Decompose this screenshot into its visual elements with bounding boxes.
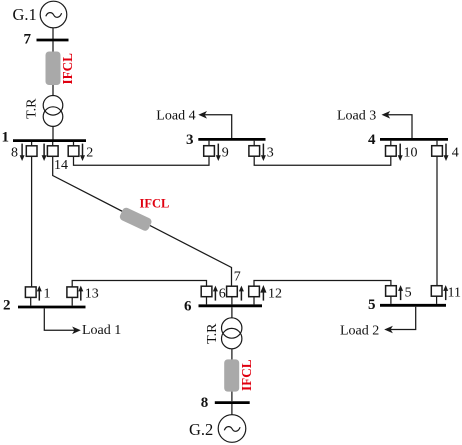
- bus 4: [380, 138, 448, 141]
- breaker 4 (bus 4): [432, 146, 443, 157]
- bus 8: [215, 401, 250, 404]
- svg-text:IFCL: IFCL: [140, 197, 170, 211]
- wire transformer to IFCL: [231, 349, 233, 360]
- flow arrow at breaker 8: [20, 144, 25, 161]
- stub bus5-breaker11: [436, 296, 438, 304]
- breaker 9 (bus 3): [204, 146, 215, 157]
- svg-text:7: 7: [24, 32, 32, 48]
- svg-text:1: 1: [2, 130, 10, 146]
- svg-text:2: 2: [86, 146, 93, 161]
- flow arrow at breaker 4: [444, 144, 449, 161]
- flow arrow at breaker 5: [398, 285, 403, 300]
- flow arrow at breaker 10: [398, 144, 403, 161]
- svg-text:T.R: T.R: [205, 323, 220, 344]
- svg-text:6: 6: [184, 298, 192, 314]
- load arrow Load 4: [198, 111, 231, 138]
- flow arrow at breaker 11: [443, 285, 448, 300]
- svg-text:G.1: G.1: [13, 5, 37, 24]
- svg-text:IFCL: IFCL: [60, 53, 75, 85]
- wire bus 8 to G.2: [231, 404, 233, 415]
- breaker 8 (bus 1): [26, 146, 37, 157]
- wire line 1-2 (breaker 8 to breaker 1): [31, 156, 33, 287]
- IFCL (fault current limiter, G.2 branch): [224, 359, 239, 391]
- wire line 1-6 upper segment (breaker 14 down): [53, 156, 232, 286]
- breaker 3 (bus 3): [249, 146, 260, 157]
- generator G.2: [218, 415, 246, 443]
- flow arrow at breaker 13: [78, 286, 83, 301]
- svg-text:T.R: T.R: [25, 98, 40, 119]
- svg-text:1: 1: [44, 287, 51, 302]
- flow arrow at breaker 14: [42, 144, 47, 161]
- breaker 10 (bus 4): [386, 146, 397, 157]
- breaker 2 (bus 1): [68, 146, 79, 157]
- stub bus2-breaker1: [30, 297, 32, 305]
- flow arrow at breaker 3: [261, 144, 266, 161]
- wire IFCL to transformer: [52, 85, 54, 96]
- svg-text:2: 2: [3, 298, 11, 314]
- svg-text:IFCL: IFCL: [239, 359, 254, 391]
- flow arrow at breaker 7: [239, 286, 244, 301]
- wire bus 6 to transformer: [231, 307, 233, 318]
- stub bus3-breaker3: [253, 141, 255, 146]
- wire line 2-6 (breaker 13 to breaker 6): [72, 281, 206, 287]
- svg-text:6: 6: [219, 287, 226, 302]
- svg-text:Load 2: Load 2: [340, 323, 379, 338]
- wire transformer to bus 1: [52, 126, 54, 139]
- svg-text:3: 3: [186, 132, 194, 148]
- stub bus4-breaker4: [436, 141, 438, 146]
- wire IFCL to bus 8: [231, 392, 233, 402]
- svg-text:5: 5: [405, 286, 412, 301]
- svg-text:13: 13: [85, 287, 99, 302]
- svg-text:8: 8: [11, 146, 18, 161]
- stub bus1-breaker8: [31, 142, 33, 146]
- bus 5: [380, 304, 446, 307]
- wire bus 7 to IFCL: [52, 41, 54, 52]
- transformer T.R (bottom): [222, 318, 242, 349]
- load arrow Load 2: [384, 307, 416, 334]
- breaker 5 (bus 5): [386, 286, 397, 297]
- svg-text:Load 4: Load 4: [156, 109, 195, 124]
- svg-text:10: 10: [404, 146, 418, 161]
- stub bus3-breaker9: [208, 141, 210, 146]
- load arrow Load 3: [382, 111, 413, 138]
- breaker 6 (bus 6): [201, 286, 212, 297]
- svg-text:12: 12: [268, 287, 282, 302]
- svg-text:3: 3: [267, 146, 274, 161]
- stub bus1-breaker14: [52, 142, 54, 146]
- breaker 1 (bus 2): [25, 287, 36, 298]
- breaker 14 (bus 1): [47, 146, 58, 157]
- flow arrow at breaker 2: [80, 144, 85, 161]
- svg-text:Load 3: Load 3: [337, 109, 376, 124]
- breaker 11 (bus 5): [431, 286, 442, 297]
- bus 6: [199, 304, 263, 307]
- flow arrow at breaker 6: [213, 286, 218, 301]
- svg-text:9: 9: [222, 146, 229, 161]
- flow arrow at breaker 9: [216, 144, 221, 161]
- generator G.1: [40, 1, 67, 28]
- bus 2: [18, 306, 86, 309]
- breaker 13 (bus 2): [67, 287, 78, 298]
- stub bus1-breaker2: [73, 142, 75, 146]
- stub bus6-breaker12: [253, 297, 255, 305]
- bus 7: [37, 39, 69, 42]
- stub bus5-breaker5: [390, 296, 392, 304]
- wire line 1-3 (breaker 2 to breaker 9): [74, 156, 210, 165]
- svg-text:4: 4: [368, 132, 376, 148]
- stub bus6-breaker6: [206, 297, 208, 305]
- svg-text:4: 4: [452, 146, 459, 161]
- svg-text:Load 1: Load 1: [82, 323, 121, 338]
- svg-text:8: 8: [201, 395, 209, 411]
- svg-text:11: 11: [448, 286, 461, 301]
- svg-text:14: 14: [54, 158, 68, 173]
- IFCL (fault current limiter, G.1 branch): [46, 52, 61, 86]
- wire line 3-4 (breaker 3 to breaker 10): [254, 156, 391, 165]
- svg-text:G.2: G.2: [189, 420, 213, 439]
- IFCL (fault current limiter, line 1-6, rotated): [119, 206, 153, 232]
- stub bus4-breaker10: [390, 141, 392, 146]
- wire line 6-5 (breaker 12 to breaker 5): [254, 281, 391, 287]
- wire G.1 to bus 7: [52, 28, 54, 39]
- breaker 12 (bus 6): [249, 286, 260, 297]
- bus 3: [198, 138, 265, 141]
- load arrow Load 1: [44, 308, 81, 334]
- bus 1: [13, 139, 86, 142]
- wire line 4-5 (breaker 4 to breaker 11): [436, 156, 438, 286]
- svg-text:7: 7: [234, 270, 241, 285]
- stub bus6-breaker7: [231, 297, 233, 305]
- transformer T.R (top): [43, 96, 63, 127]
- stub bus2-breaker13: [71, 297, 73, 305]
- breaker 7 (bus 6): [227, 286, 238, 297]
- flow arrow at breaker 1: [37, 286, 42, 301]
- flow arrow at breaker 12: [260, 285, 266, 301]
- svg-text:5: 5: [368, 297, 376, 313]
